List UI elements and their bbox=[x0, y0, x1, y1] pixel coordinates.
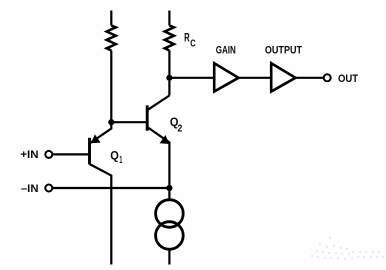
wire: left rail from resistor to node A bbox=[110, 51, 112, 123]
wire: left supply lead bbox=[110, 11, 112, 26]
svg-text:1: 1 bbox=[119, 155, 122, 166]
svg-text:R: R bbox=[184, 30, 190, 44]
current source circle upper bbox=[156, 200, 184, 228]
node B junction dot (RC / gain takeoff) bbox=[166, 75, 172, 81]
op-amp OUTPUT buffer bbox=[271, 63, 295, 91]
terminal +IN bbox=[45, 151, 52, 158]
wire: GAIN to OUTPUT amp bbox=[239, 77, 271, 79]
wire: right supply lead bbox=[168, 11, 170, 26]
svg-text:Q: Q bbox=[110, 149, 119, 163]
wire: Q2 emitter diagonal and lead to tail node bbox=[147, 127, 169, 188]
Q2 emitter arrow (NPN, pointing out) bbox=[160, 135, 170, 144]
transistor Q1 base bar bbox=[88, 138, 91, 165]
current source circle lower bbox=[156, 222, 184, 250]
tail node junction dot bbox=[166, 185, 172, 191]
svg-text:C: C bbox=[190, 38, 195, 49]
wire: current source bottom lead bbox=[168, 250, 170, 265]
wire: Q2 collector diagonal bbox=[147, 96, 169, 111]
terminal OUT bbox=[324, 74, 331, 81]
svg-text:–IN: –IN bbox=[21, 183, 39, 195]
wire: tail node to current source bbox=[168, 188, 170, 200]
transistor Q2 base bar bbox=[146, 105, 149, 130]
svg-text:+IN: +IN bbox=[20, 149, 38, 161]
svg-text:OUTPUT: OUTPUT bbox=[265, 44, 302, 56]
wire: Q1 emitter diagonal up to node A bbox=[90, 122, 112, 143]
wire: OUTPUT amp to OUT terminal bbox=[296, 77, 324, 79]
svg-text:2: 2 bbox=[178, 123, 183, 134]
resistor (left collector load) bbox=[107, 26, 116, 51]
wire: +IN base lead bbox=[53, 153, 90, 155]
Q1 emitter arrow (PNP, pointing into base bar) bbox=[91, 134, 101, 143]
wire: -IN line to tail node bbox=[53, 187, 170, 189]
terminal -IN bbox=[45, 185, 52, 192]
op-amp GAIN buffer bbox=[214, 63, 238, 91]
node A junction dot bbox=[108, 119, 114, 125]
wire: Q2 base lead from node A bbox=[111, 121, 146, 123]
wire: Q1 collector diagonal down bbox=[90, 164, 112, 265]
wire: RC bottom lead to Q2 collector bbox=[168, 51, 170, 96]
resistor RC bbox=[165, 26, 174, 51]
svg-text:OUT: OUT bbox=[338, 73, 358, 85]
svg-text:GAIN: GAIN bbox=[216, 44, 236, 56]
watermark dots (faint) bbox=[311, 237, 384, 260]
wire: node B to GAIN amp bbox=[169, 77, 213, 79]
